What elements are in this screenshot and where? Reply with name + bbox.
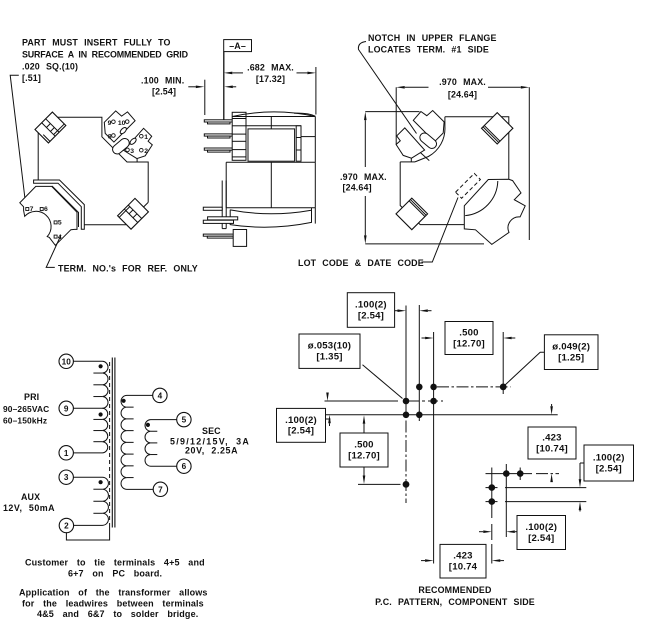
svg-text:[24.64]: [24.64] xyxy=(343,182,372,192)
bottom view terminal block lower (terms 1,3,2) xyxy=(124,128,153,158)
pc pattern holes 0.053 xyxy=(416,384,423,391)
svg-text:LOCATES TERM. #1 SIDE: LOCATES TERM. #1 SIDE xyxy=(368,45,489,55)
svg-text:SURFACE A IN RECOMMENDED GRID: SURFACE A IN RECOMMENDED GRID xyxy=(22,50,189,60)
svg-text:1: 1 xyxy=(64,449,69,458)
svg-text:.423: .423 xyxy=(542,433,561,444)
top view body outline xyxy=(445,117,509,180)
side view: mid body xyxy=(226,161,315,163)
svg-text:.020 SQ.(10): .020 SQ.(10) xyxy=(22,62,78,72)
pc pattern lower-right centerlines xyxy=(491,468,493,481)
bottom view flange band (bottom-left) xyxy=(34,180,85,229)
svg-text:PART MUST INSERT FULLY TO: PART MUST INSERT FULLY TO xyxy=(22,38,171,48)
svg-text:–A–: –A– xyxy=(229,41,246,51)
side view: body right edge xyxy=(314,117,316,163)
dim .100(2) top: arrows xyxy=(398,309,407,312)
leader to TERM NOs note xyxy=(46,235,61,267)
aux winding (terms 3-2) xyxy=(73,477,108,525)
svg-text:[12.70]: [12.70] xyxy=(348,450,380,461)
svg-text:.423: .423 xyxy=(453,551,472,562)
svg-text:9: 9 xyxy=(108,120,112,127)
dim .100(2) left: arrows xyxy=(326,393,329,402)
bottom view terminal block upper (terms 9,10,8) xyxy=(104,111,135,142)
primary winding upper (terms 10-9) xyxy=(73,361,108,408)
datum A flag xyxy=(224,40,252,121)
svg-text:ø.049(2): ø.049(2) xyxy=(552,342,590,353)
svg-text:LOT CODE & DATE CODE: LOT CODE & DATE CODE xyxy=(298,258,424,268)
polarity dots xyxy=(99,364,103,368)
svg-text:12V, 50mA: 12V, 50mA xyxy=(3,503,55,513)
terminal hole circles and numbers on bottom view xyxy=(112,120,116,124)
dim box .500 top xyxy=(445,322,493,355)
side view: left standoff strip xyxy=(221,181,223,229)
svg-text:7: 7 xyxy=(30,206,34,213)
top view pad bottom-left xyxy=(396,198,428,230)
side view: top flange lens xyxy=(232,116,315,118)
flange skirt edge across top-left corner xyxy=(412,145,430,161)
dim box .100(2) right xyxy=(584,445,634,481)
svg-text:8: 8 xyxy=(108,133,112,140)
top view center-leg capsule xyxy=(418,131,438,150)
dim .500 top: arrows xyxy=(425,337,434,340)
svg-text:NOTCH IN UPPER FLANGE: NOTCH IN UPPER FLANGE xyxy=(368,33,497,43)
side view: upper pins xyxy=(204,120,232,122)
side view: bottom skirt xyxy=(230,210,311,228)
oval hole on upper terminal block xyxy=(119,126,127,134)
svg-text:90–265VAC: 90–265VAC xyxy=(3,404,49,414)
svg-text:.970 MAX.: .970 MAX. xyxy=(439,77,486,87)
svg-text:.100(2): .100(2) xyxy=(593,453,625,464)
core lines xyxy=(111,358,113,528)
bottom view mounting pad top-left xyxy=(35,112,66,143)
svg-text:[1.25]: [1.25] xyxy=(558,352,584,363)
dim box dia .053 xyxy=(299,334,360,368)
dim .423 right: arrows xyxy=(550,406,553,415)
svg-text:.100 MIN.: .100 MIN. xyxy=(141,76,184,86)
svg-text:10: 10 xyxy=(62,357,72,366)
svg-text:[2.54]: [2.54] xyxy=(528,533,554,544)
leader for hole dia 0.049 xyxy=(505,352,545,385)
svg-text:[17.32]: [17.32] xyxy=(256,74,285,84)
svg-text:.682 MAX.: .682 MAX. xyxy=(247,62,294,72)
svg-text:AUX: AUX xyxy=(21,492,40,502)
dim box dia .049 xyxy=(544,335,598,370)
dim box .100(2) left xyxy=(277,408,326,442)
svg-text:[1.35]: [1.35] xyxy=(316,352,342,363)
pc pattern centerlines xyxy=(405,306,407,402)
svg-text:[2.54]: [2.54] xyxy=(152,86,176,96)
svg-text:for the leadwires between term: for the leadwires between terminals xyxy=(22,599,204,609)
svg-text:4: 4 xyxy=(158,391,163,400)
note: part must insert text block xyxy=(22,38,189,84)
svg-text:Application of the transformer: Application of the transformer allows xyxy=(19,588,208,598)
svg-text:.500: .500 xyxy=(354,440,373,451)
svg-text:60–150kHz: 60–150kHz xyxy=(3,416,47,426)
svg-text:6+7 on PC board.: 6+7 on PC board. xyxy=(68,569,162,579)
svg-text:.100(2): .100(2) xyxy=(285,415,317,426)
svg-text:PRI: PRI xyxy=(24,392,39,402)
svg-text:[24.64]: [24.64] xyxy=(448,89,477,99)
side view: right bobbin flange bar xyxy=(296,126,301,161)
svg-text:ø.053(10): ø.053(10) xyxy=(308,341,351,352)
dim .100(2) right: bracket and arrows xyxy=(580,462,584,464)
bottom view center-leg capsule xyxy=(111,137,131,156)
svg-text:[2.54]: [2.54] xyxy=(596,463,622,474)
svg-text:6: 6 xyxy=(182,462,187,471)
svg-text:7: 7 xyxy=(158,485,163,494)
bottom view flange blob with terminals 7,6,5,4 xyxy=(20,186,77,245)
dim box .500 left xyxy=(340,433,388,467)
svg-text:5: 5 xyxy=(182,416,187,425)
svg-text:4&5 and 6&7 to solder bridge.: 4&5 and 6&7 to solder bridge. xyxy=(37,609,198,619)
side view: winding window xyxy=(246,125,301,127)
svg-text:RECOMMENDED: RECOMMENDED xyxy=(418,585,492,595)
svg-text:2: 2 xyxy=(144,148,148,155)
leader from notch note to flange notch xyxy=(358,42,416,134)
dim box .423 bottom xyxy=(440,544,486,578)
dim .100(2) bottom: arrows xyxy=(483,530,492,533)
dimension .970 MAX horizontal xyxy=(396,77,529,240)
dimension .682 MAX xyxy=(224,62,316,114)
svg-text:5: 5 xyxy=(58,220,62,227)
svg-text:[10.74: [10.74 xyxy=(449,562,478,573)
dimension .100 MIN xyxy=(141,76,236,116)
dim box .423 right xyxy=(528,427,576,459)
svg-text:TERM. NO.'s FOR REF. ONLY: TERM. NO.'s FOR REF. ONLY xyxy=(58,264,198,274)
svg-text:9: 9 xyxy=(64,404,69,413)
dim .500 left: arrows xyxy=(363,415,366,424)
svg-text:.500: .500 xyxy=(459,328,478,339)
electrostatic shield dashed line, tied to terminal 2 xyxy=(109,362,111,524)
dim box .100(2) top xyxy=(347,293,394,328)
svg-text:[.51]: [.51] xyxy=(22,73,41,83)
svg-text:6: 6 xyxy=(44,206,48,213)
svg-text:[2.54]: [2.54] xyxy=(288,426,314,437)
bottom view mounting pad bottom-right xyxy=(118,198,149,229)
svg-text:3: 3 xyxy=(64,473,69,482)
oval hole on lower terminal block xyxy=(129,137,137,145)
svg-text:1: 1 xyxy=(144,134,148,141)
side view: bobbin pin header xyxy=(232,112,246,160)
leader from lot code note xyxy=(422,198,459,263)
pc pattern holes 0.049 xyxy=(500,384,507,391)
svg-text:[10.74]: [10.74] xyxy=(536,443,568,454)
svg-text:20V, 2.25A: 20V, 2.25A xyxy=(185,446,238,456)
svg-text:[12.70]: [12.70] xyxy=(453,338,485,349)
svg-text:Customer to tie terminals 4+5: Customer to tie terminals 4+5 and xyxy=(25,558,205,568)
secondary winding A (terms 4-7) xyxy=(121,395,153,489)
top view bottom-right flange xyxy=(464,179,525,244)
svg-text:.100(2): .100(2) xyxy=(355,300,387,311)
side view: center foot block xyxy=(233,230,246,247)
svg-text:3: 3 xyxy=(130,148,134,155)
primary winding lower (terms 9-1) xyxy=(73,408,107,453)
terminal square marks 7 6 5 4 xyxy=(26,208,29,211)
svg-text:SEC: SEC xyxy=(202,426,221,436)
top view flange tabs and capsule (mirror of bottom view cluster) xyxy=(396,111,444,162)
top view pad top-right xyxy=(482,113,513,144)
bottom view body outline xyxy=(53,117,148,202)
svg-text:2: 2 xyxy=(64,522,69,531)
side view: lower pins xyxy=(203,207,222,210)
lot/date code dashed rectangle xyxy=(456,173,481,198)
svg-text:[2.54]: [2.54] xyxy=(358,310,384,321)
dim box .100(2) bottom xyxy=(517,516,566,550)
dim .423 bottom: arrows xyxy=(425,559,434,562)
leader from .020 SQ note to terminal 7 square xyxy=(10,75,25,200)
svg-text:.100(2): .100(2) xyxy=(525,522,557,533)
leader for hole dia 0.053 xyxy=(363,365,403,399)
svg-text:10: 10 xyxy=(118,120,126,127)
dimension .970 MAX vertical xyxy=(340,112,484,244)
svg-text:.970 MAX.: .970 MAX. xyxy=(340,172,387,182)
svg-text:P.C. PATTERN, COMPONENT SIDE: P.C. PATTERN, COMPONENT SIDE xyxy=(375,597,535,607)
terminal circles xyxy=(59,354,73,368)
secondary winding B (terms 5-6) xyxy=(145,420,177,467)
